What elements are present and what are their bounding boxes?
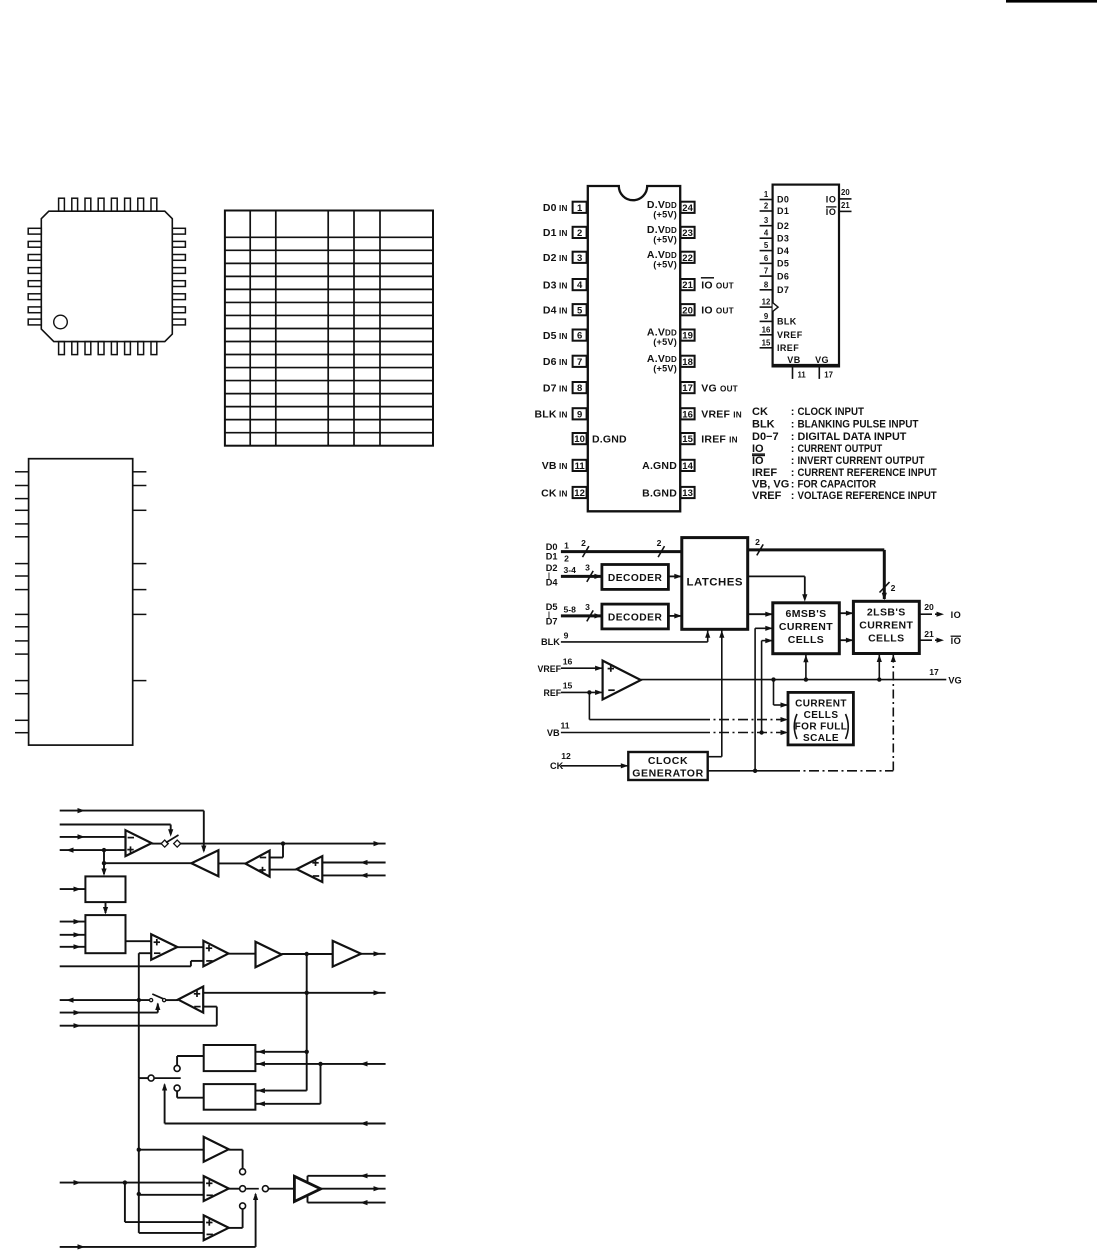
wire LATCHES to 6MSB top [748,575,805,577]
wire REF branch to full-scale cells [588,692,590,719]
svg-text:17: 17 [929,667,939,677]
application IC left pin stubs [15,471,29,473]
svg-text:14: 14 [682,461,693,472]
svg-text:BLK: BLK [777,317,797,327]
wire clock generator to LATCHES [708,756,722,758]
wire pole feed [139,1077,148,1079]
wire TD - input [139,1232,204,1234]
QFP top pins [59,198,65,211]
selector S3 pole [148,1075,154,1081]
op-amp A0 [126,830,152,856]
svg-text:12: 12 [561,751,571,761]
svg-text:20: 20 [924,602,934,612]
svg-text::: : [791,490,795,502]
svg-text:BLK: BLK [752,419,775,431]
svg-text:8: 8 [764,280,769,289]
svg-text:2: 2 [891,583,896,593]
wire control input to S2 [60,1012,158,1014]
DIP left pin boxes 1-12 [573,202,587,213]
svg-text:D2 IN: D2 IN [543,252,568,264]
output IO-bar pin 21 [919,639,926,641]
QFP right pins [172,228,185,234]
wire T-A input [139,1149,204,1151]
svg-text:VB IN: VB IN [542,460,568,472]
logic symbol output IO-bar pin 21 [839,210,852,212]
svg-text:16: 16 [762,325,771,334]
block 2LSB current cells [853,601,919,653]
svg-text:22: 22 [682,253,693,264]
svg-text:SCALE: SCALE [803,733,839,744]
DIP-24 package body with notch [588,186,680,511]
svg-text:21: 21 [924,629,934,639]
svg-text:1: 1 [577,203,583,214]
svg-text:12: 12 [574,488,585,499]
svg-text:2: 2 [581,538,586,548]
wire REF to op-amp - [561,691,603,693]
svg-text:24: 24 [682,203,693,214]
buffer A1 (left-pointing) [191,850,218,876]
wire A7 output to right edge [361,953,386,955]
QFP bottom pins [59,342,65,355]
svg-text:IO: IO [951,636,962,646]
block LATCHES [682,538,748,630]
svg-text:D4: D4 [777,246,789,256]
switch S2 contacts [150,999,153,1002]
wire line2 drop to switch S1 [170,825,172,835]
wire VB line to full-scale cells [561,732,700,734]
svg-text:6: 6 [577,331,582,342]
wire A2 output to A1 input [218,863,245,865]
svg-text:D5 IN: D5 IN [543,330,568,342]
buffer A7 [333,941,361,967]
block B1 [85,876,125,902]
selector S4 contact bottom [240,1203,246,1209]
svg-text:16: 16 [563,657,573,667]
block DECODER upper [602,565,669,590]
block DECODER lower [602,604,669,629]
svg-text:FOR FULL: FOR FULL [795,722,848,733]
svg-text:D0 IN: D0 IN [543,202,568,214]
svg-text:D1 IN: D1 IN [543,227,568,239]
black registration bar top-right [1006,0,1097,3]
wire B4 input 2 [255,1103,320,1105]
svg-text:2: 2 [564,554,569,564]
wire A4 - feedback [139,952,151,954]
block B2 [85,915,125,953]
svg-text:CURRENT OUTPUT: CURRENT OUTPUT [798,443,883,455]
svg-text:15: 15 [682,434,693,445]
wire output line 4 from op-amp A0 + [60,849,126,851]
wire TC output to right edge [321,1188,386,1190]
svg-text:15: 15 [762,338,771,347]
svg-text:BLK: BLK [541,637,560,647]
selector S4 contact top [240,1169,246,1175]
logic symbol body [773,185,839,367]
wire input line 2 [60,824,171,826]
svg-text:11: 11 [575,461,586,472]
wire branch down to buffer A2 input [282,844,284,858]
svg-text:CELLS: CELLS [868,633,904,645]
svg-text:9: 9 [564,631,569,641]
wire B3 input 2 [255,1063,385,1065]
svg-text:VREF IN: VREF IN [701,409,742,421]
block current cells for full scale [788,692,853,745]
svg-text:VB: VB [547,728,560,738]
wire VREF to op-amp + [561,667,603,669]
svg-text:3: 3 [764,216,769,225]
wire switch S2 output line left [60,999,149,1001]
op-amp A4 [151,934,177,960]
wire D0-D1 bus into LATCHES [561,550,682,553]
svg-text:11: 11 [798,371,807,380]
svg-text:3: 3 [577,253,582,264]
svg-text:D0: D0 [546,542,558,552]
application IC body outline [29,459,133,745]
wire A3 input upper from right [322,862,385,864]
svg-text:CURRENT: CURRENT [779,621,833,633]
QFP package outline [41,211,172,341]
svg-text::: : [791,419,795,431]
wire B2 output to op-amp A4 + [126,940,152,942]
svg-text:2: 2 [755,537,760,547]
svg-text:DECODER: DECODER [608,573,663,584]
specification table grid (empty) [225,211,433,446]
svg-text:CELLS: CELLS [804,710,839,721]
switch S1 contacts [152,843,163,845]
svg-text:CK IN: CK IN [541,487,567,499]
svg-text:VB, VG: VB, VG [752,479,789,491]
op-amp reference comparator [603,661,641,700]
wire A1 output to node [104,862,191,864]
svg-text:19: 19 [682,331,693,342]
svg-text:21: 21 [682,280,693,291]
wire select control up-arrow [164,1085,166,1124]
wire main vertical bus x138.8 lower [138,1000,140,1078]
svg-text:12: 12 [762,298,771,307]
svg-text:5-8: 5-8 [564,605,577,615]
svg-text:4: 4 [577,280,583,291]
svg-text:VG OUT: VG OUT [701,382,738,394]
wire vertical from A6-A7 node [306,954,308,1091]
svg-text::: : [791,443,795,455]
wire TC feedback rail vertical [307,1176,309,1203]
svg-text::: : [791,455,795,467]
svg-text:(+5V): (+5V) [653,209,677,219]
svg-text:15: 15 [563,681,573,691]
buffer A3 (left-pointing) [297,856,323,882]
wire A3 input lower from right [322,874,385,876]
wire op-amp output VG line [641,679,947,681]
svg-text:DIGITAL DATA INPUT: DIGITAL DATA INPUT [798,431,907,443]
QFP left pins [28,228,41,234]
svg-text:D7: D7 [546,616,558,626]
wire throw lower to block B4 [176,1091,178,1098]
wire clock branch to 2LSB cells [892,654,894,771]
wire select control up-arrow 2 [255,1194,257,1247]
wire LATCHES 2-bit bus to 2LSB cells [748,548,885,551]
wire A5 output to buffer A6 [228,953,255,955]
wire inputs to block B2 [60,921,86,923]
svg-text:GENERATOR: GENERATOR [632,768,704,780]
svg-text:9: 9 [577,409,582,420]
svg-text:D.GND: D.GND [592,433,627,445]
svg-text:20: 20 [682,305,693,316]
svg-text:LATCHES: LATCHES [687,577,743,589]
svg-text:D4: D4 [546,577,559,587]
wire B4 input 1 [255,1090,306,1092]
svg-text:D3: D3 [777,233,789,243]
svg-text:2LSB'S: 2LSB'S [867,607,906,619]
svg-text:D1: D1 [546,552,558,562]
svg-text:VB: VB [787,355,800,365]
block 6MSB current cells [773,603,840,654]
svg-text:D4 IN: D4 IN [543,305,568,317]
svg-text:CURRENT REFERENCE INPUT: CURRENT REFERENCE INPUT [798,467,937,479]
wire TD output to selector bottom [229,1227,243,1229]
wire line1 drop to buffer A1 [203,811,205,851]
wire B3 input 1 [255,1051,306,1053]
svg-text:D2: D2 [546,563,558,573]
svg-text:BLANKING PULSE INPUT: BLANKING PULSE INPUT [798,419,919,431]
wire bottom control line [60,1246,256,1248]
wire bus down to T-A input [138,1078,140,1150]
svg-text:FOR CAPACITOR: FOR CAPACITOR [798,479,877,491]
svg-text:6MSB'S: 6MSB'S [785,608,826,620]
svg-text:A.GND: A.GND [642,460,677,472]
svg-text:(+5V): (+5V) [653,259,677,269]
svg-text:D5: D5 [546,602,558,612]
wire selector to output stage [268,1188,294,1190]
svg-text:BLK IN: BLK IN [535,409,568,421]
wire TC bottom rail to right edge [308,1202,386,1204]
svg-text:IREF: IREF [752,467,777,479]
svg-text::: : [791,406,795,418]
svg-text:VG: VG [948,676,961,686]
svg-text:21: 21 [841,201,850,210]
op-amp A8 (left-pointing) [178,987,203,1013]
selector S4 contact right [262,1186,268,1192]
wire A8 + line to right edge [203,992,385,994]
svg-text:16: 16 [682,409,693,420]
svg-text:IREF: IREF [777,343,799,353]
wire lower DECODER to LATCHES [668,615,681,617]
wire CK to clock generator [561,765,628,767]
selector S3 throw lower [174,1085,180,1091]
wire BLK to LATCHES [561,641,708,643]
svg-text::: : [791,467,795,479]
svg-text:(+5V): (+5V) [653,337,677,347]
wire TD + input branch [124,1183,126,1223]
svg-text:17: 17 [682,383,693,394]
wire VG junction to 6MSB bottom [805,654,807,680]
svg-text:DECODER: DECODER [608,613,663,624]
svg-text:7: 7 [764,267,768,276]
svg-text:3: 3 [585,602,590,612]
wire A4 output to A5 + [177,946,203,948]
wire vertical to B4 input 2 [320,1064,322,1104]
buffer TA [204,1137,229,1162]
block B4 [204,1084,256,1110]
svg-text:VREF: VREF [538,664,562,674]
wire 6MSB to 2LSB upper [839,612,853,614]
svg-text:IO: IO [951,610,962,620]
wire LATCHES to 6MSB input [748,613,773,615]
op-amp TB [204,1176,229,1201]
svg-text:2: 2 [764,202,769,211]
svg-text:CURRENT: CURRENT [795,699,847,710]
svg-text:D6 IN: D6 IN [543,356,568,368]
svg-text:5: 5 [764,241,769,250]
svg-text:20: 20 [841,188,850,197]
selector S4 contact mid [240,1186,246,1192]
svg-text:7: 7 [577,357,582,368]
buffer A6 [256,942,282,968]
svg-text:INVERT CURRENT OUTPUT: INVERT CURRENT OUTPUT [798,455,925,467]
svg-text:(+5V): (+5V) [653,363,677,373]
output IO pin 20 [919,613,926,615]
op-amp A5 [203,941,228,967]
svg-text:IO OUT: IO OUT [701,305,734,317]
svg-text:13: 13 [682,488,693,499]
wire A5 - input loop [191,960,204,962]
wire input line 3 to op-amp A0 - [60,836,126,838]
wire TC top rail to right edge [308,1175,386,1177]
wire A6 output to buffer A7 [282,953,333,955]
QFP pin-1 index dot [54,315,68,329]
svg-text:REF: REF [544,688,562,698]
svg-text:D2: D2 [777,221,789,231]
wire B1 to B2 [105,902,107,913]
svg-text:D3 IN: D3 IN [543,279,568,291]
wire node down to block B1 [103,850,105,874]
svg-text:9: 9 [764,312,769,321]
svg-text:D7 IN: D7 IN [543,382,568,394]
wire D2-D4 bus into upper DECODER [561,575,602,578]
block B3 [204,1045,256,1071]
svg-text:VREF: VREF [777,330,803,340]
clock input chevron pin 12 [773,303,779,312]
svg-text:CURRENT: CURRENT [859,620,913,632]
buffer A2 (left-pointing) [245,851,269,877]
output buffer TC (bold) [294,1176,320,1201]
svg-text:1: 1 [564,541,569,551]
wire vertical feedback x138.8 [138,953,140,1000]
svg-text:IO: IO [752,443,764,455]
wire switch S1 to right edge [180,843,386,845]
wire TB - input [139,1194,204,1196]
svg-text:IO: IO [826,194,837,204]
svg-text:5: 5 [577,305,583,316]
svg-text::: : [791,431,795,443]
svg-text:IO: IO [752,455,764,467]
wire upper DECODER to LATCHES [668,575,681,577]
svg-text:6: 6 [764,254,769,263]
svg-text:1: 1 [764,190,769,199]
wire VG junction to 2LSB bottom [878,654,880,680]
svg-text:18: 18 [682,357,693,368]
wire TB + input [60,1182,204,1184]
wire switch S2 to A8 tip [166,999,178,1001]
application IC right pin stubs [133,471,147,473]
svg-text:D0: D0 [777,195,789,205]
svg-text:2: 2 [657,538,662,548]
DIP right pin boxes 24-13 [681,202,695,213]
svg-text:(+5V): (+5V) [653,234,677,244]
svg-text:2: 2 [577,228,582,239]
svg-text:11: 11 [560,721,569,731]
svg-text:CK: CK [752,406,768,418]
svg-text:D1: D1 [777,206,789,216]
svg-text:D5: D5 [777,259,789,269]
svg-text:VREF: VREF [752,490,782,502]
svg-text:CLOCK: CLOCK [648,755,688,767]
svg-text:CLOCK INPUT: CLOCK INPUT [798,406,865,418]
wire A8 - loop [203,1006,217,1008]
logic symbol output IO pin 20 [839,198,852,200]
wire clock generator long output [708,770,790,772]
svg-text:10: 10 [574,434,585,445]
svg-text:IREF IN: IREF IN [701,433,737,445]
wire long line y1123 to right edge [165,1123,386,1125]
wire VG branch to full-scale input [771,677,775,681]
block CLOCK GENERATOR [628,752,707,780]
wire clock branch to 6MSB cells [754,628,756,771]
svg-text:23: 23 [682,228,693,239]
wire TB output to selector mid [229,1188,240,1190]
wire input to block B1 [60,888,86,890]
svg-text:4: 4 [764,229,769,238]
wire VB branch up to 6MSB cells [761,641,763,733]
op-amp TD [204,1215,229,1240]
svg-text:IO OUT: IO OUT [701,279,734,291]
svg-text:IO: IO [826,207,837,217]
svg-text:3: 3 [585,563,590,573]
svg-text:D0−7: D0−7 [752,431,779,443]
svg-text:VOLTAGE REFERENCE INPUT: VOLTAGE REFERENCE INPUT [798,490,937,502]
svg-text:17: 17 [824,371,833,380]
svg-text:VG: VG [815,355,829,365]
wire throw upper to block B3 [176,1056,178,1065]
logic symbol left pin stubs and numbers [760,199,773,201]
wire A3 output to A2 + [270,869,297,871]
wire D5-D7 bus into lower DECODER [561,614,602,617]
svg-text:B.GND: B.GND [642,487,677,499]
wire input line 1 [60,810,204,812]
svg-text::: : [791,479,795,491]
wire TA output to selector top [229,1149,243,1151]
selector S3 throw upper [174,1065,180,1071]
svg-text:3-4: 3-4 [564,565,577,575]
svg-text:D6: D6 [777,271,789,281]
wire 6MSB to 2LSB lower [839,639,853,641]
svg-text:D7: D7 [777,285,789,295]
svg-text:CELLS: CELLS [788,634,824,646]
svg-text:8: 8 [577,383,582,394]
